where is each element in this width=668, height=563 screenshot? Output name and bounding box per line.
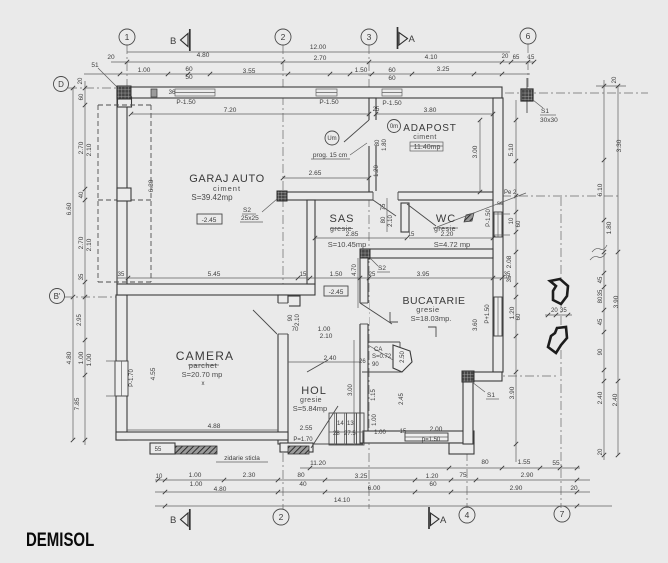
svg-text:CA: CA	[374, 347, 382, 353]
svg-text:4.80: 4.80	[197, 52, 210, 59]
svg-text:1.80: 1.80	[606, 221, 613, 234]
svg-text:35: 35	[560, 308, 567, 314]
wall garage bottom / camera top	[117, 284, 315, 295]
garage width dim 7.20	[131, 113, 369, 115]
svg-text:3.90: 3.90	[509, 386, 516, 399]
wall adapost left	[369, 98, 376, 192]
svg-text:25x25: 25x25	[241, 215, 259, 222]
svg-text:P-1.70: P-1.70	[129, 369, 135, 387]
leader S1 top-left	[98, 68, 117, 87]
svg-text:gresie: gresie	[434, 226, 456, 233]
column S1 hatched	[462, 371, 474, 382]
level box hol -2.45	[324, 286, 348, 296]
svg-text:4.80: 4.80	[66, 351, 73, 364]
svg-text:1.15: 1.15	[371, 389, 377, 401]
wall bucatarie right lower	[463, 381, 473, 444]
axis S1 dash-dot top right	[505, 92, 648, 94]
svg-text:4.88: 4.88	[208, 423, 221, 430]
svg-text:x: x	[202, 381, 205, 387]
svg-text:3: 3	[367, 32, 372, 42]
svg-text:3.90: 3.90	[613, 295, 620, 308]
svg-text:S=5.84mp: S=5.84mp	[293, 404, 327, 413]
svg-text:20: 20	[551, 308, 558, 314]
svg-text:2.55: 2.55	[300, 425, 313, 432]
svg-text:P+1.50: P+1.50	[485, 304, 491, 324]
svg-text:2.90: 2.90	[510, 485, 523, 492]
svg-text:60: 60	[388, 75, 396, 82]
svg-text:B': B'	[54, 292, 61, 301]
svg-text:WC: WC	[436, 213, 456, 225]
svg-text:50: 50	[185, 74, 193, 81]
svg-text:-2.45: -2.45	[329, 289, 344, 296]
svg-text:2.10: 2.10	[86, 238, 93, 251]
svg-text:15: 15	[400, 429, 407, 435]
svg-text:1.00: 1.00	[190, 481, 203, 488]
stair arrow	[311, 406, 338, 448]
svg-text:35: 35	[118, 272, 125, 278]
bottom chain row3	[155, 491, 590, 493]
step left of glass	[150, 443, 175, 454]
svg-text:HOL: HOL	[301, 385, 327, 397]
door gap bucatarie	[359, 303, 369, 324]
svg-text:2.70: 2.70	[314, 55, 327, 62]
svg-text:3.25: 3.25	[437, 66, 450, 73]
svg-text:se: se	[497, 201, 504, 207]
window wc right	[494, 212, 502, 237]
lobby door dims 75 80 2.10	[386, 198, 388, 232]
svg-text:1.00: 1.00	[374, 430, 386, 436]
svg-text:P=1.70: P=1.70	[293, 437, 313, 443]
bucatarie corner brackets	[390, 312, 436, 337]
wall top exterior	[117, 87, 502, 98]
svg-text:4.10: 4.10	[425, 54, 438, 61]
title DEMISOL	[26, 528, 95, 550]
wall left camera	[116, 295, 127, 440]
svg-text:55: 55	[552, 460, 560, 467]
window top adapost	[382, 89, 402, 96]
svg-text:2.40: 2.40	[612, 393, 619, 406]
svg-text:3.55: 3.55	[243, 68, 256, 75]
level box garage -2.45	[197, 214, 222, 224]
section flag A bottom	[428, 507, 430, 529]
svg-text:S=10.45mp: S=10.45mp	[328, 240, 367, 249]
svg-text:20: 20	[502, 54, 509, 60]
svg-text:15: 15	[528, 55, 535, 61]
lintel tick on wall	[151, 89, 157, 97]
svg-text:20: 20	[598, 448, 604, 455]
svg-text:12.00: 12.00	[310, 44, 327, 51]
svg-text:3.25: 3.25	[355, 473, 368, 480]
grid line 1	[126, 45, 128, 100]
svg-text:S=39.42mp: S=39.42mp	[191, 193, 233, 202]
S1 leader top right	[533, 100, 543, 108]
step bottom right	[449, 443, 474, 454]
svg-text:90: 90	[598, 348, 604, 355]
svg-text:2.70: 2.70	[78, 236, 85, 249]
svg-text:1.00: 1.00	[78, 351, 85, 364]
column S1 top right hatched	[521, 89, 533, 101]
svg-text:80: 80	[297, 472, 305, 479]
black chevron upper	[550, 279, 568, 304]
svg-text:2: 2	[279, 512, 284, 522]
svg-text:20: 20	[107, 54, 115, 61]
svg-text:3.00: 3.00	[348, 384, 354, 396]
circle 0m	[388, 120, 401, 133]
svg-text:ciment: ciment	[213, 184, 241, 193]
svg-text:prog. 15 cm: prog. 15 cm	[313, 152, 347, 159]
svg-text:P-1.50: P-1.50	[176, 99, 196, 106]
right inner chain	[515, 100, 517, 462]
svg-text:20: 20	[570, 485, 578, 492]
bottom chain row4 14.10	[155, 505, 612, 507]
svg-text:7.85: 7.85	[74, 397, 81, 410]
hol 2.40 dim	[288, 361, 360, 363]
black chevron lower	[548, 327, 567, 353]
svg-text:D: D	[58, 80, 64, 89]
door leaf lobby-adapost	[373, 200, 396, 216]
bubble 3	[361, 29, 377, 45]
svg-text:P-1.50: P-1.50	[382, 100, 402, 107]
svg-text:2.30: 2.30	[243, 472, 256, 479]
svg-text:S=0.72: S=0.72	[372, 354, 392, 360]
svg-text:27.5: 27.5	[344, 431, 356, 437]
svg-text:35: 35	[79, 273, 85, 280]
svg-text:10: 10	[156, 474, 163, 480]
svg-text:7: 7	[560, 509, 565, 519]
svg-text:2.90: 2.90	[521, 472, 534, 479]
bubble 4	[459, 507, 475, 523]
svg-text:B: B	[170, 36, 176, 47]
door leaf wc	[407, 204, 436, 226]
svg-text:zidarie sticla: zidarie sticla	[224, 455, 260, 462]
svg-text:75: 75	[381, 203, 387, 210]
door gap camera	[277, 303, 289, 334]
svg-text:20: 20	[612, 76, 618, 83]
wall right exterior	[493, 98, 503, 372]
svg-text:B: B	[170, 515, 176, 526]
svg-text:10: 10	[509, 217, 515, 224]
squiggle annotation	[590, 245, 607, 260]
circle Um	[325, 131, 339, 145]
CA bay pentagon	[393, 345, 412, 372]
svg-text:2.00: 2.00	[430, 426, 443, 433]
adapost height dim 3.00	[479, 120, 481, 192]
svg-text:2.40: 2.40	[597, 391, 604, 404]
top chain line 12.00	[127, 51, 510, 53]
svg-text:45: 45	[598, 318, 604, 325]
svg-text:S=4.72 mp: S=4.72 mp	[434, 240, 470, 249]
grid line 3	[368, 45, 370, 509]
svg-text:1.00: 1.00	[86, 353, 93, 366]
svg-text:ADAPOST: ADAPOST	[403, 123, 456, 134]
svg-text:60: 60	[516, 220, 522, 227]
svg-text:45: 45	[598, 276, 604, 283]
svg-text:gresie: gresie	[330, 226, 352, 233]
door gap adapost	[368, 120, 377, 146]
wall step right / S1 column row	[463, 372, 502, 381]
svg-text:2.10: 2.10	[320, 333, 333, 340]
svg-text:S1: S1	[541, 108, 549, 115]
svg-text:25: 25	[369, 272, 376, 278]
window bucatarie right	[494, 297, 502, 336]
svg-text:14: 14	[337, 421, 344, 427]
svg-text:4.80: 4.80	[214, 486, 227, 493]
grid line 4	[466, 452, 468, 508]
svg-text:S=20.70 mp: S=20.70 mp	[182, 370, 223, 379]
wc leader diagonal	[437, 193, 526, 227]
axis B' dash-dot	[64, 296, 117, 298]
svg-text:4: 4	[465, 510, 470, 520]
svg-text:20: 20	[78, 77, 84, 84]
svg-text:2.50: 2.50	[400, 351, 406, 363]
svg-text:80: 80	[381, 216, 387, 223]
wall sas top / adapost bottom	[278, 192, 502, 200]
CA closet outline	[362, 342, 402, 372]
door leaf hol-camera lower	[307, 360, 328, 372]
garage ramp dashed outline	[97, 105, 99, 282]
svg-text:65: 65	[513, 55, 520, 61]
camera dims	[127, 429, 278, 431]
dotted line right of step wall	[474, 375, 558, 377]
svg-text:DEMISOL: DEMISOL	[26, 528, 95, 550]
svg-text:Pe 2: Pe 2	[504, 190, 517, 196]
window bucatarie bottom	[405, 433, 448, 441]
svg-text:60: 60	[429, 481, 437, 488]
svg-text:3.60: 3.60	[473, 319, 479, 331]
grid line 7	[560, 197, 562, 508]
svg-text:90: 90	[372, 362, 379, 368]
wall camera-hol vertical	[278, 295, 288, 444]
wc width dim 2.20	[409, 237, 493, 239]
svg-text:14.10: 14.10	[334, 497, 351, 504]
adapost dim 2.65	[283, 177, 369, 179]
svg-text:60: 60	[516, 313, 522, 320]
svg-text:parchet: parchet	[189, 361, 218, 370]
svg-text:1.20: 1.20	[374, 165, 380, 177]
svg-text:3.80: 3.80	[424, 107, 437, 114]
S1 leader bottom	[472, 382, 485, 392]
svg-text:2.45: 2.45	[399, 393, 405, 405]
svg-text:30x30: 30x30	[540, 117, 558, 124]
svg-text:35: 35	[504, 272, 511, 278]
svg-text:1: 1	[125, 32, 130, 42]
section flag A top	[397, 27, 399, 49]
svg-text:6.10: 6.10	[597, 183, 604, 196]
svg-text:15: 15	[300, 272, 307, 278]
axis D dash-dot	[68, 87, 118, 89]
wall hol-bucatarie vertical	[360, 258, 368, 443]
adapost width dim 3.80	[376, 113, 493, 115]
left chain outer	[72, 88, 74, 297]
svg-text:11.40mp: 11.40mp	[414, 144, 441, 151]
sas width dim 2.85	[315, 237, 407, 239]
window top sas	[316, 89, 337, 96]
svg-text:3.30: 3.30	[616, 139, 623, 152]
svg-text:7.20: 7.20	[224, 107, 237, 114]
svg-text:2.10: 2.10	[295, 314, 301, 326]
door gap lobby	[373, 191, 398, 201]
grid line 6	[527, 44, 529, 100]
svg-text:1.55: 1.55	[518, 459, 531, 466]
svg-text:gresie: gresie	[300, 397, 322, 404]
svg-text:1.00: 1.00	[138, 67, 151, 74]
svg-text:2.10: 2.10	[388, 215, 394, 227]
svg-text:60: 60	[388, 67, 396, 74]
svg-text:0m: 0m	[390, 124, 398, 130]
svg-text:80: 80	[481, 459, 489, 466]
window top garage	[175, 89, 215, 96]
door leaf bucatarie	[360, 303, 392, 324]
wall sas bottom	[361, 249, 493, 258]
top chain line totals	[111, 61, 534, 63]
svg-text:gresie: gresie	[416, 305, 439, 314]
svg-text:A: A	[409, 34, 416, 45]
bubble 1	[119, 29, 135, 45]
pilaster garage left	[117, 188, 131, 201]
svg-text:1.00: 1.00	[318, 326, 331, 333]
bottom chain row1 11.20	[300, 467, 580, 469]
svg-text:60: 60	[79, 93, 85, 100]
svg-text:3.00: 3.00	[472, 145, 479, 158]
svg-text:26: 26	[359, 359, 366, 365]
column sas bottom hatched	[360, 249, 370, 259]
svg-text:1.20: 1.20	[509, 306, 516, 319]
svg-text:36: 36	[169, 90, 176, 96]
right outer chains	[603, 80, 605, 460]
svg-text:40: 40	[299, 481, 307, 488]
pilaster under column	[118, 97, 132, 107]
svg-text:2.10: 2.10	[86, 143, 93, 156]
wall wc left	[401, 203, 409, 232]
svg-text:2.08: 2.08	[506, 255, 513, 268]
svg-text:3.95: 3.95	[417, 271, 430, 278]
svg-text:1.00: 1.00	[189, 472, 202, 479]
svg-text:1.50: 1.50	[330, 271, 343, 278]
wall bucatarie bottom	[363, 431, 474, 443]
svg-text:S1: S1	[487, 392, 495, 399]
stair treads	[329, 413, 364, 445]
svg-text:Um: Um	[327, 136, 336, 142]
bottom chain row2	[155, 479, 590, 481]
wc hatch mark	[464, 213, 474, 222]
wall camera bottom	[116, 432, 288, 440]
svg-text:6.30: 6.30	[148, 179, 155, 192]
svg-text:1.00: 1.00	[372, 414, 378, 426]
svg-text:13: 13	[347, 421, 354, 427]
bubble 2 top	[275, 29, 291, 45]
svg-text:2: 2	[281, 32, 286, 42]
svg-text:4.55: 4.55	[150, 367, 157, 380]
svg-text:35: 35	[598, 289, 604, 296]
svg-text:2.40: 2.40	[324, 355, 337, 362]
svg-text:40: 40	[79, 191, 85, 198]
svg-text:p=1.50: p=1.50	[422, 437, 441, 443]
svg-text:90: 90	[288, 314, 294, 321]
svg-text:6.60: 6.60	[66, 202, 73, 215]
svg-text:S=18.03mp.: S=18.03mp.	[411, 314, 452, 323]
svg-text:A: A	[440, 515, 447, 526]
svg-text:1.20: 1.20	[426, 473, 439, 480]
door leaf camera	[253, 310, 277, 334]
wall left exterior	[117, 87, 127, 295]
glass wall zidarie sticla	[159, 446, 217, 454]
svg-text:51: 51	[91, 62, 99, 69]
svg-text:60: 60	[185, 66, 193, 73]
hol vertical dims	[353, 340, 355, 443]
grid6 stub below S1	[526, 78, 528, 113]
svg-text:S2: S2	[378, 265, 386, 272]
svg-text:4.70: 4.70	[352, 264, 358, 276]
bubble 7	[554, 506, 570, 522]
column grid1 hatched	[117, 86, 131, 99]
svg-text:1.50: 1.50	[355, 67, 368, 74]
wall hol bottom thin	[280, 443, 313, 452]
bubble D	[54, 77, 69, 92]
door leaf adapost	[344, 120, 369, 142]
wall sas left vertical	[307, 200, 315, 284]
hol bottom window hatched	[288, 446, 309, 454]
column sas-top hatched	[277, 191, 287, 201]
svg-text:1.80: 1.80	[382, 139, 388, 151]
svg-text:6: 6	[526, 31, 531, 41]
svg-text:80: 80	[598, 296, 604, 303]
svg-text:6.00: 6.00	[368, 485, 381, 492]
svg-text:ciment: ciment	[413, 134, 437, 141]
svg-text:P-1.50: P-1.50	[319, 99, 339, 106]
svg-text:-2.45: -2.45	[202, 217, 217, 224]
svg-text:5.45: 5.45	[208, 271, 221, 278]
svg-text:15: 15	[408, 232, 415, 238]
svg-text:SAS: SAS	[329, 213, 354, 225]
svg-text:75: 75	[459, 472, 467, 479]
left chain inner	[84, 81, 86, 445]
svg-text:2.95: 2.95	[77, 314, 83, 326]
svg-text:2.70: 2.70	[78, 141, 85, 154]
svg-text:S2: S2	[243, 207, 251, 214]
bubble 2 bottom	[273, 509, 289, 525]
svg-text:5.10: 5.10	[508, 143, 515, 156]
grid line 2	[282, 45, 284, 509]
svg-text:70: 70	[292, 327, 299, 333]
top chain line partials	[84, 73, 530, 75]
window camera left	[115, 361, 128, 396]
bubble B'	[50, 289, 65, 304]
CA inner diagonals	[368, 345, 393, 360]
svg-text:55: 55	[155, 447, 162, 453]
svg-text:P-1.50: P-1.50	[486, 209, 492, 227]
svg-text:11.20: 11.20	[310, 460, 326, 467]
garage bottom dim row 5.45	[117, 277, 510, 279]
svg-text:25: 25	[373, 107, 380, 113]
svg-text:2.65: 2.65	[309, 170, 322, 177]
bubble 6	[520, 28, 536, 44]
pilaster top of camera-hol wall	[288, 296, 300, 306]
svg-text:80: 80	[375, 139, 381, 146]
svg-text:28: 28	[333, 431, 340, 437]
